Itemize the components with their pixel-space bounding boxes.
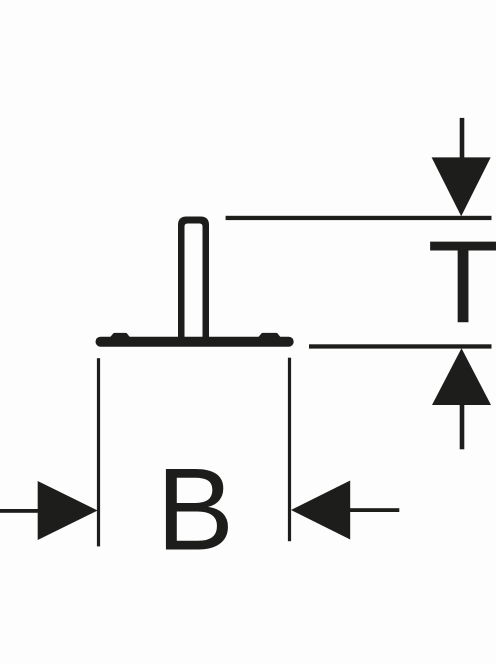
svg-text:B: B xyxy=(156,445,234,575)
svg-text:T: T xyxy=(428,217,496,347)
